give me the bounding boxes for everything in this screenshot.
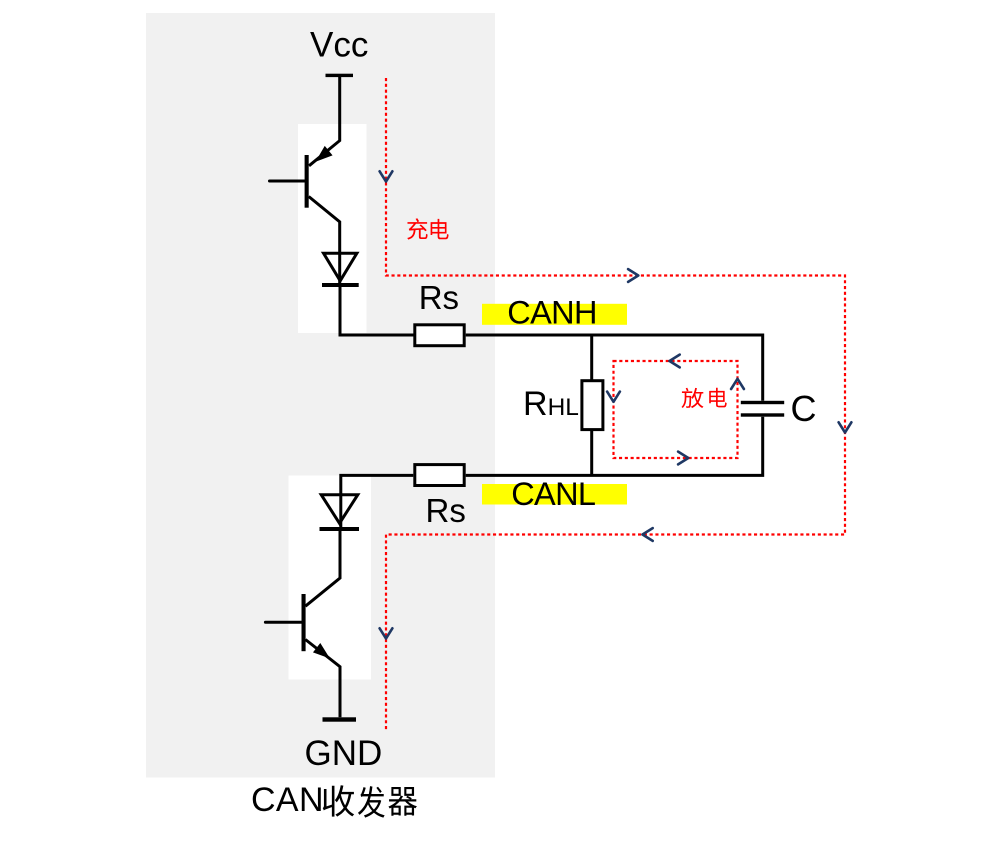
- transistor Q2 emitter: [305, 640, 340, 718]
- arrow: discharge loop right (bottom edge): [678, 452, 688, 465]
- transistor Q1 base bar: [305, 155, 309, 208]
- label 电 (discharge): [709, 388, 727, 408]
- wire CANL resistor to diode D2: [341, 475, 414, 531]
- wire diode to CANH line: [340, 287, 414, 335]
- wire Vcc to transistor emitter: [309, 77, 340, 166]
- transceiver block background: [146, 13, 495, 778]
- diode D1 cathode bar: [322, 283, 359, 287]
- GND terminal bar: [323, 717, 357, 721]
- wire RHL bottom to CANL line: [590, 430, 593, 474]
- svg-text:CANH: CANH: [507, 295, 597, 331]
- caption 发: [358, 786, 385, 818]
- diode D1 triangle: [324, 253, 357, 281]
- diode D2 cathode bar: [320, 527, 360, 531]
- arrow: charge path down (bottom left vertical): [380, 628, 393, 638]
- low-side driver white box: [289, 476, 372, 680]
- transistor Q2 emitter arrowhead (NPN): [315, 645, 328, 657]
- svg-text:CANL: CANL: [511, 476, 596, 512]
- svg-text:Vcc: Vcc: [310, 26, 368, 65]
- Vcc terminal bar: [326, 74, 354, 77]
- wire CANH: resistor to capacitor branch: [466, 335, 763, 401]
- transistor Q2 base lead: [265, 621, 301, 624]
- capacitor C top plate: [741, 401, 784, 404]
- arrow: discharge loop left (top edge): [670, 355, 680, 368]
- wire diode D2 to transistor Q2 collector: [305, 531, 340, 606]
- CANH highlight: [482, 304, 627, 325]
- red dashed discharge loop: [614, 361, 738, 458]
- arrow: charge path down (top): [380, 171, 393, 181]
- arrow: charge path right (top horizontal): [628, 269, 638, 282]
- CANL highlight: [482, 484, 627, 505]
- label 电 (charge): [431, 219, 449, 239]
- arrow: charge path down (right vertical): [839, 422, 852, 432]
- wire CANH to RHL top: [590, 337, 593, 381]
- arrow: charge path left (bottom horizontal): [643, 528, 653, 541]
- arrow: discharge loop up (right edge): [731, 379, 744, 389]
- resistor Rs (top) body: [415, 325, 464, 346]
- transistor Q1 base lead: [270, 180, 305, 183]
- wire: red dashed charge path Vcc->right->down->left->GND: [386, 78, 845, 731]
- svg-text:GND: GND: [305, 734, 383, 773]
- svg-text:Rs: Rs: [419, 279, 459, 316]
- label 放 (discharge): [682, 388, 704, 408]
- high-side driver white box: [298, 124, 367, 333]
- arrow: discharge loop down (left edge): [607, 392, 620, 402]
- svg-text:Rs: Rs: [426, 492, 466, 529]
- wire capacitor bottom to CANL line: [466, 417, 763, 476]
- transistor Q2 base bar: [302, 594, 306, 651]
- svg-text:CAN: CAN: [251, 781, 324, 819]
- resistor RHL body: [582, 381, 603, 430]
- capacitor C bottom plate: [741, 413, 784, 416]
- diode D2 triangle: [321, 495, 358, 524]
- svg-text:C: C: [791, 388, 817, 429]
- caption 收: [323, 785, 355, 816]
- resistor Rs (bottom) body: [415, 465, 464, 486]
- transistor Q1 emitter arrowhead (PNP): [318, 148, 331, 160]
- label 充 (charge): [407, 218, 427, 239]
- caption 器: [388, 787, 417, 816]
- transistor Q1 collector: [309, 197, 340, 288]
